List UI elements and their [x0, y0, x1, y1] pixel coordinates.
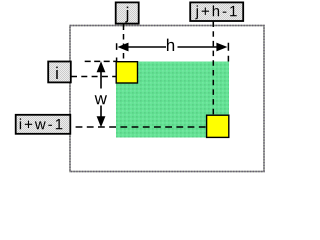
outer image rectangle [70, 26, 264, 172]
h dimension arrow shaft right segment [178, 46, 224, 48]
w dimension label [95, 95, 107, 104]
label text i+w-1 [20, 118, 63, 129]
w dimension arrow shaft bottom segment [100, 106, 102, 123]
dashed leader line for row i+w-1 [71, 126, 206, 128]
dashed leader line for column j [123, 25, 125, 62]
outer image rectangle dotted border overlay [70, 26, 264, 172]
label box i+w-1 [16, 115, 71, 134]
w dimension arrow shaft top segment [100, 66, 102, 89]
connector line below j label [123, 24, 125, 28]
label box i [48, 62, 71, 83]
dashed extension line above pixel (i,j) [116, 43, 118, 62]
h dimension label [167, 39, 174, 51]
dashed extension line above ROI top-right corner [227, 43, 229, 62]
label text j [125, 7, 128, 23]
w arrowhead bottom [97, 116, 106, 127]
connector line below j+h-1 label [212, 21, 214, 26]
label box j [116, 2, 139, 23]
label text j+h-1 [195, 5, 236, 19]
dashed extension line left of pixel (i,j) [85, 60, 116, 62]
h dimension arrow shaft left segment [122, 46, 166, 48]
pixel (i,j) yellow square [116, 62, 137, 83]
dashed leader line for row i [71, 76, 116, 78]
pixel (i+w-1, j+h-1) yellow square [207, 115, 229, 137]
h arrowhead left [118, 43, 129, 52]
ROI green rectangle [116, 62, 229, 138]
h arrowhead right [216, 43, 227, 52]
dashed leader line for column j+h-1 [212, 22, 214, 116]
w arrowhead top [97, 61, 106, 72]
label text i [56, 67, 57, 79]
label box j+h-1 [190, 2, 243, 21]
